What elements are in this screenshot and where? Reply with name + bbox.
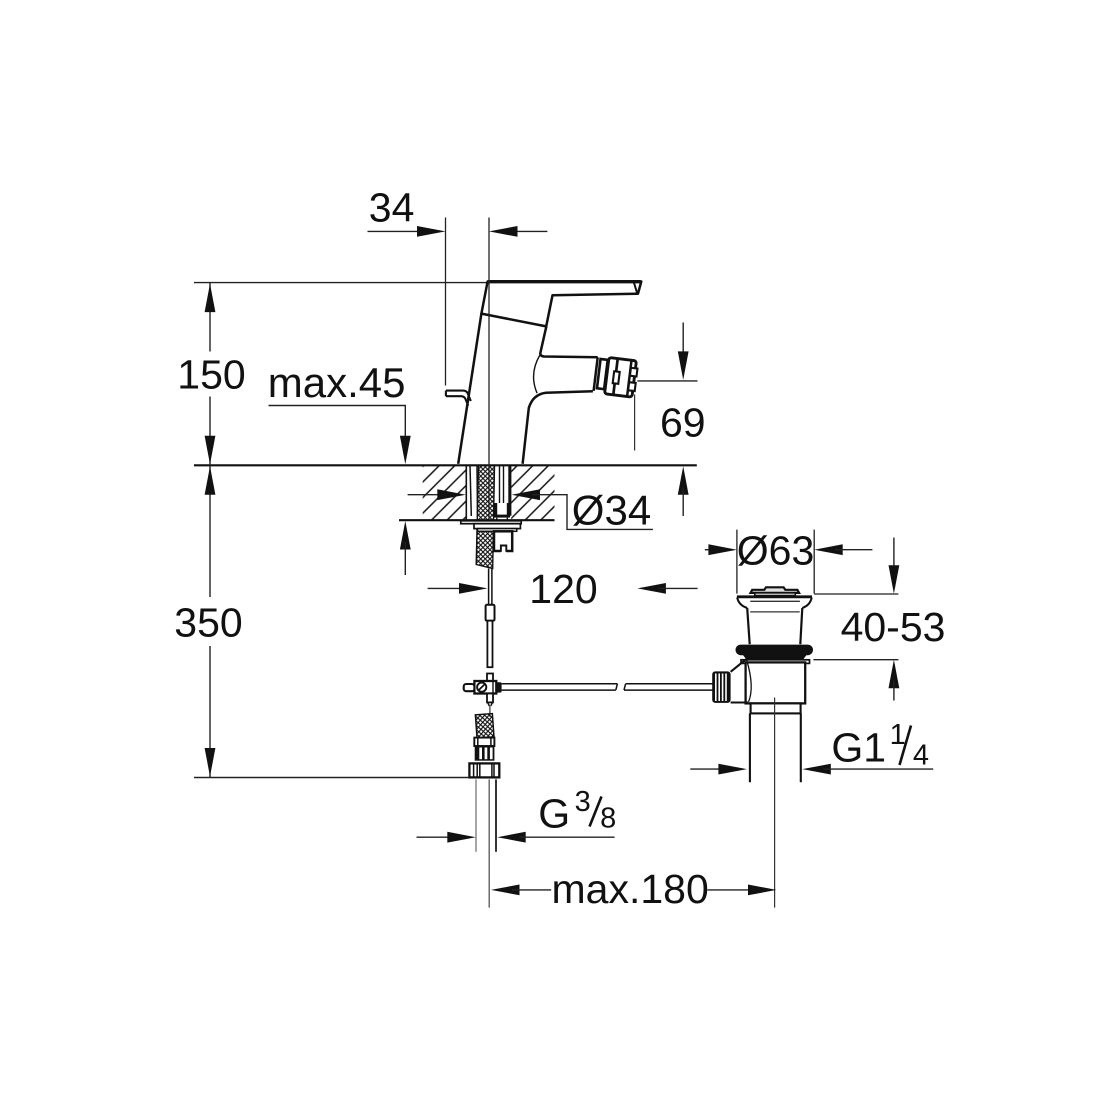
drain collar: [751, 703, 801, 713]
dim 350 line: [209, 465, 211, 777]
dim 150 line: [209, 283, 211, 466]
bottom extension line: [194, 777, 469, 779]
shank tube walls in hole: [470, 465, 478, 516]
reference line top of faucet: [194, 282, 488, 284]
dim 34 extension left: [445, 218, 447, 386]
horizontal pop-up rod right segment: [624, 684, 715, 690]
drain plug cap disc: [751, 587, 800, 593]
pull rod middle: [487, 621, 492, 668]
faucet lever handle: [481, 282, 641, 327]
drain tailpipe: [750, 713, 801, 782]
deck hatch right: [511, 466, 554, 520]
pull rod channel in hole: [500, 465, 504, 503]
svg-text:69: 69: [660, 400, 706, 446]
dim max.45 leader: [269, 406, 406, 444]
svg-text:3: 3: [575, 786, 591, 818]
dim 40-53 lines: [893, 538, 895, 573]
clamp right clip: [496, 682, 501, 692]
spout face: [594, 357, 598, 391]
drain seal ring: [736, 645, 814, 656]
svg-text:34: 34: [369, 185, 415, 231]
drain centerline: [774, 698, 776, 908]
dim max.45 lower arrow: [400, 521, 411, 550]
braided hose upper: [476, 465, 494, 568]
svg-text:8: 8: [600, 802, 616, 834]
rod stub above clamp: [487, 674, 493, 682]
svg-text:1: 1: [890, 719, 906, 751]
dim Ø63 extensions: [737, 530, 814, 594]
aerator assembly: [596, 357, 638, 398]
svg-text:max.180: max.180: [552, 866, 709, 912]
svg-text:G1: G1: [831, 725, 886, 771]
dim 34 lines: [368, 230, 425, 232]
nut step: [478, 529, 517, 532]
svg-text:4: 4: [913, 740, 929, 772]
drain plug cap base: [755, 593, 796, 596]
drain lip under seal: [741, 660, 810, 664]
dim Ø34 lines: [408, 494, 445, 496]
hole right wall bar: [508, 465, 511, 516]
faucet body left edge: [458, 314, 481, 464]
svg-text:Ø34: Ø34: [572, 486, 651, 533]
drain ball arc: [747, 660, 752, 703]
mounting nut plate: [474, 524, 520, 529]
dim 120 lines: [428, 587, 467, 589]
svg-text:150: 150: [177, 351, 245, 397]
svg-text:G: G: [538, 790, 570, 836]
stud with slot: [494, 531, 512, 551]
clamp left stub: [464, 684, 475, 691]
dim 69 arrows: [682, 323, 684, 360]
spout bottom edge and body lower right: [523, 391, 593, 464]
faucet centerline upper: [488, 218, 490, 521]
drain neck: [747, 608, 802, 644]
deck bottom line: [399, 519, 555, 521]
spout face projection line: [634, 395, 636, 451]
dim Ø63 lines: [705, 549, 716, 551]
dim 69 extension at spout: [637, 380, 697, 382]
svg-text:40-53: 40-53: [841, 604, 946, 650]
svg-text:max.45: max.45: [268, 359, 406, 406]
deck hatch left: [423, 466, 467, 520]
clamp screw: [477, 683, 486, 692]
rod stub below clamp: [487, 694, 493, 703]
hex nut G3/8: [469, 763, 499, 777]
dim 40-53 extensions: [813, 594, 898, 660]
faucet centerline lower: [488, 779, 490, 907]
braided hose lower: [475, 714, 494, 739]
mounting stud upper: [494, 503, 497, 518]
washer plate: [461, 521, 521, 524]
rod clamp block: [474, 681, 496, 694]
rod connector sleeve: [486, 605, 495, 621]
drain body: [746, 662, 806, 703]
drain horn: [731, 659, 748, 702]
svg-text:Ø63: Ø63: [737, 528, 815, 574]
hose connector band: [474, 738, 494, 746]
spout left concave arc: [534, 355, 540, 393]
dim G1 1/4 lines: [690, 768, 726, 770]
hole left wall: [465, 465, 467, 520]
dim G3/8 lines: [417, 836, 454, 838]
deck top line: [194, 464, 697, 466]
knurled coupling: [475, 746, 495, 761]
pull rod upper: [489, 569, 492, 606]
drain knob: [712, 671, 730, 703]
lever rear hook: [446, 391, 471, 406]
svg-text:120: 120: [529, 566, 597, 612]
horizontal pop-up rod left segment: [502, 684, 618, 690]
dim max.180 lines: [491, 885, 520, 896]
drain flange: [737, 595, 812, 598]
G3/8 pipe: [475, 779, 477, 851]
faucet body right edge and spout top: [540, 326, 597, 357]
svg-text:350: 350: [174, 600, 242, 646]
